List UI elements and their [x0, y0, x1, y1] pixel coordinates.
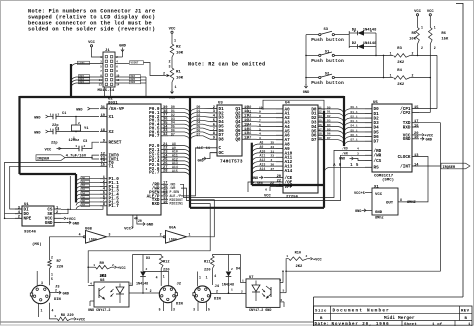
svg-text:U6A: U6A: [169, 227, 177, 231]
inverter U6A LS04: [160, 227, 191, 244]
svg-text:U1: U1: [24, 203, 29, 207]
svg-text:GND: GND: [45, 221, 53, 226]
svg-text:4: 4: [79, 233, 81, 237]
push button S1: [306, 51, 393, 64]
svg-text:RS: RS: [374, 166, 380, 171]
svg-text:3: 3: [41, 281, 43, 285]
svg-text:D0.1: D0.1: [351, 106, 358, 109]
svg-text:1N4148: 1N4148: [363, 42, 377, 46]
svg-text:7: 7: [259, 120, 261, 123]
svg-text:2: 2: [78, 122, 80, 125]
svg-text:5: 5: [159, 308, 161, 312]
svg-text:A6: A6: [248, 131, 252, 135]
svg-text:2: 2: [306, 255, 308, 258]
svg-text:GND: GND: [252, 177, 258, 181]
bus U3 to U4 vertical: [251, 143, 253, 185]
wire R4 row to /CP2: [419, 78, 430, 113]
wire U7 collector to U5 TXD net: [285, 123, 440, 293]
bus main horizontal: [20, 96, 345, 98]
svg-text:23: 23: [271, 155, 275, 158]
svg-text:8Mhz: 8Mhz: [375, 215, 384, 220]
svg-text:93C46: 93C46: [24, 231, 37, 235]
svg-text:Note: R2 can be omitted: Note: R2 can be omitted: [188, 62, 266, 68]
svg-text:1: 1: [199, 276, 201, 280]
svg-text:2: 2: [18, 216, 20, 220]
svg-text:8MHZ: 8MHZ: [407, 201, 416, 205]
svg-text:2: 2: [160, 233, 162, 237]
svg-text:1: 1: [231, 289, 233, 292]
svg-text:/CS: /CS: [374, 159, 382, 164]
svg-text:GND: GND: [147, 224, 155, 228]
capacitor C2 22p: [34, 128, 99, 146]
svg-text:D0: D0: [327, 106, 331, 109]
net label PSEN at U4 /OE: [248, 182, 276, 192]
wire U8 pins: [88, 283, 159, 307]
wires P1.0-P1.7 to LCD bus with labels: [80, 176, 100, 207]
latch U3 74HCT573: [210, 102, 249, 165]
net labels /RD /WR PSEN MIDIOUT MIDIIN1 at U2: [170, 182, 183, 205]
svg-text:1: 1: [93, 264, 95, 267]
power VCC at X1: [354, 192, 372, 196]
svg-text:X2: X2: [109, 130, 115, 135]
wire bus from J1 to LCD data bus: [71, 61, 103, 97]
svg-text:DB6: DB6: [131, 81, 136, 84]
svg-text:1: 1: [286, 255, 288, 258]
svg-text:Document Number: Document Number: [333, 309, 391, 314]
net label IRQSER left: [36, 155, 99, 162]
svg-text:GND: GND: [303, 91, 310, 95]
svg-text:/INT: /INT: [400, 164, 411, 169]
svg-text:19: 19: [101, 114, 105, 118]
svg-text:74HCT573: 74HCT573: [220, 160, 243, 165]
svg-text:A14: A14: [285, 169, 293, 174]
svg-text:GND: GND: [375, 211, 383, 215]
wire R3 row to /CP1: [419, 55, 437, 108]
svg-text:1N4148: 1N4148: [136, 283, 148, 287]
svg-text:26: 26: [271, 164, 275, 167]
svg-text:GND: GND: [76, 109, 83, 113]
wire over U4 to bus: [262, 100, 324, 111]
resistor R4 2K2: [390, 69, 431, 87]
svg-text:1: 1: [242, 280, 244, 283]
wire T0 to U1 DO: [5, 162, 100, 213]
power VCC at U4 VPP: [264, 187, 276, 199]
resistor R8 220 to +VCC: [50, 303, 86, 323]
svg-text:28: 28: [163, 170, 168, 174]
wire U2 GND pin 20: [137, 215, 154, 228]
svg-text:GND: GND: [426, 139, 433, 143]
svg-text:Push button: Push button: [311, 59, 344, 64]
svg-text:R12: R12: [163, 261, 169, 265]
svg-text:GND: GND: [119, 45, 127, 49]
svg-text:A13: A13: [260, 163, 266, 167]
EPROM U4 27256: [276, 102, 325, 200]
resistor R3 2K2: [390, 47, 437, 65]
EEPROM U1 93C46: [15, 203, 61, 235]
wire U2 VCC pin 40: [124, 215, 138, 232]
svg-text:3: 3: [173, 308, 175, 312]
svg-text:6: 6: [213, 123, 215, 127]
svg-text:Q8: Q8: [235, 138, 241, 143]
svg-text:10K: 10K: [176, 52, 184, 56]
svg-text:22: 22: [277, 179, 281, 183]
svg-text:1 of: 1 of: [432, 322, 443, 326]
svg-text:2: 2: [412, 74, 414, 78]
svg-text:D7: D7: [327, 137, 331, 140]
note text about connector J1: [28, 9, 155, 33]
bus P1 vertical with taps: [76, 174, 80, 209]
svg-text:D4: D4: [82, 192, 86, 195]
svg-text:2: 2: [163, 73, 165, 77]
svg-text:U5: U5: [373, 101, 378, 105]
wires J1 bottom pins to bus: [105, 88, 111, 97]
svg-text:D7.1: D7.1: [351, 139, 358, 142]
wire U6B output to U6A input: [107, 236, 164, 238]
svg-text:J2: J2: [177, 283, 182, 287]
diode D2 1N4148: [349, 33, 377, 56]
svg-text:Push button: Push button: [311, 38, 344, 43]
svg-text:2K2: 2K2: [296, 265, 304, 269]
capacitor C3 4.7uF/16V: [45, 140, 100, 159]
svg-text:D6.1: D6.1: [351, 134, 358, 137]
wires A8-A15 from U2 P2 to bus: [168, 142, 190, 177]
svg-text:1: 1: [54, 315, 56, 318]
svg-text:12: 12: [116, 79, 120, 82]
svg-text:A14: A14: [260, 167, 266, 171]
svg-text:D6: D6: [327, 133, 331, 136]
svg-text:D4: D4: [327, 124, 331, 127]
svg-text:3: 3: [193, 308, 195, 312]
svg-text:REV: REV: [461, 310, 470, 314]
svg-text:2: 2: [434, 46, 436, 50]
svg-text:2K2: 2K2: [397, 61, 405, 65]
svg-text:DIN: DIN: [214, 298, 222, 302]
svg-text:2: 2: [354, 29, 356, 33]
svg-text:NPE: NPE: [24, 217, 32, 222]
svg-text:Y1: Y1: [84, 127, 89, 131]
svg-text:Sheet: Sheet: [404, 322, 417, 326]
svg-text:9: 9: [259, 111, 261, 114]
svg-text:D3.1: D3.1: [351, 120, 358, 123]
svg-text:U4: U4: [285, 102, 290, 106]
svg-text:1: 1: [189, 233, 191, 237]
svg-text:11: 11: [99, 79, 103, 82]
svg-text:Midi Merger: Midi Merger: [384, 316, 415, 321]
svg-text:1: 1: [130, 283, 132, 286]
taps address bus to U4 pins A8-A14: [252, 141, 276, 176]
svg-text:4: 4: [357, 147, 359, 150]
svg-text:1: 1: [421, 26, 423, 30]
svg-text:DIN: DIN: [176, 303, 184, 307]
svg-text:LS04: LS04: [89, 238, 97, 242]
svg-text:P0.7: P0.7: [149, 134, 160, 139]
svg-text:220: 220: [204, 269, 210, 273]
wire U1 CS/SK to P1: [61, 176, 103, 214]
svg-text:D2: D2: [327, 115, 331, 118]
svg-text:+VCC: +VCC: [117, 267, 126, 271]
svg-text:/RD: /RD: [342, 146, 348, 150]
svg-text:D2: D2: [352, 42, 357, 46]
svg-text:2: 2: [412, 52, 414, 56]
power VCC above R5: [414, 10, 422, 18]
svg-text:GND: GND: [355, 210, 362, 214]
svg-text:A9: A9: [260, 145, 264, 149]
svg-text:VPP: VPP: [285, 185, 293, 190]
svg-text:8: 8: [259, 115, 261, 118]
net label IRQSER right: [419, 163, 470, 170]
svg-text:GND: GND: [339, 158, 345, 162]
bus to P1 horizontal: [20, 173, 77, 175]
svg-text:1: 1: [206, 276, 208, 280]
svg-text:R11: R11: [204, 261, 210, 265]
svg-text:2: 2: [421, 46, 423, 50]
svg-text:1: 1: [163, 275, 165, 279]
svg-text:CNY17-2 GND: CNY17-2 GND: [249, 309, 271, 313]
svg-text:2: 2: [146, 268, 148, 271]
wire J4 pin1: [198, 272, 202, 287]
inverter U6B LS04: [79, 228, 111, 244]
diode D3 1N4148: [133, 255, 162, 294]
wires J2 bottom pins: [159, 302, 175, 311]
svg-text:+VCC: +VCC: [77, 319, 86, 323]
svg-text:2: 2: [271, 159, 273, 162]
svg-text:5: 5: [208, 308, 210, 312]
connector J3 DIN: [30, 285, 61, 303]
svg-text:31: 31: [101, 106, 106, 110]
optocoupler U7 CNY17-2: [246, 276, 280, 313]
svg-text:GND: GND: [34, 131, 41, 135]
svg-text:A15: A15: [172, 169, 178, 173]
svg-text:R1: R1: [176, 71, 181, 75]
svg-text:RXD: RXD: [403, 125, 411, 130]
svg-text:November 20, 1996: November 20, 1996: [332, 322, 390, 326]
ground at X1: [355, 209, 372, 214]
svg-text:A8: A8: [260, 141, 264, 145]
svg-text:Size: Size: [315, 309, 327, 314]
diode D4 1N4148: [212, 255, 240, 294]
svg-text:1: 1: [50, 114, 52, 117]
svg-text:C3: C3: [83, 140, 87, 144]
svg-text:10: 10: [163, 201, 167, 205]
svg-text:4: 4: [156, 276, 158, 280]
svg-text:8031: 8031: [108, 102, 118, 106]
svg-text:13: 13: [99, 84, 103, 87]
svg-text:GND: GND: [73, 222, 81, 226]
svg-text:2: 2: [216, 290, 218, 294]
svg-text:9: 9: [103, 140, 105, 144]
svg-text:R9: R9: [100, 262, 105, 266]
svg-text:GND: GND: [403, 137, 411, 142]
svg-text:D3: D3: [82, 189, 86, 192]
resistor R7 220: [48, 260, 64, 285]
svg-text:R6: R6: [441, 32, 446, 36]
svg-text:P2.7: P2.7: [149, 171, 160, 176]
svg-text:/EA-VP: /EA-VP: [109, 107, 125, 112]
svg-text:20: 20: [138, 219, 142, 223]
resistor R5 10K: [409, 18, 423, 56]
svg-text:10: 10: [414, 136, 418, 140]
text MS note: [32, 242, 42, 247]
svg-text:GND: GND: [198, 159, 204, 163]
svg-text:D4.1: D4.1: [351, 125, 358, 128]
wire ALE to U3: [181, 147, 211, 196]
svg-text:10: 10: [259, 106, 263, 109]
svg-text:VCC+5: VCC+5: [354, 192, 365, 196]
svg-text:1: 1: [50, 129, 52, 132]
svg-text:A7: A7: [248, 136, 252, 140]
svg-text:6: 6: [265, 189, 267, 192]
svg-text:MIDIIN1: MIDIIN1: [170, 202, 183, 206]
svg-text:R8 220: R8 220: [61, 314, 74, 318]
svg-text:X1: X1: [109, 115, 115, 120]
svg-text:D7: D7: [171, 132, 175, 136]
svg-text:D1: D1: [327, 111, 331, 114]
svg-text:3: 3: [357, 153, 359, 156]
svg-text:/CP2: /CP2: [400, 111, 411, 116]
svg-text:3: 3: [109, 233, 111, 237]
svg-text:A12: A12: [260, 158, 266, 162]
svg-text:VCC: VCC: [169, 27, 177, 31]
wire J4 pin2 to U7: [211, 290, 246, 294]
bus bottom horizontal to U5: [190, 207, 324, 209]
svg-text:1: 1: [370, 29, 372, 33]
svg-text:D5: D5: [82, 196, 86, 199]
connector J4 DIN: [193, 285, 222, 303]
svg-text:25: 25: [271, 142, 275, 145]
svg-text:(SMC): (SMC): [382, 178, 394, 183]
resistor R10 2K2 to +VCC: [286, 252, 322, 272]
svg-text:2K2: 2K2: [397, 83, 405, 87]
svg-text:solded on the solder side (rev: solded on the solder side (reversed!): [28, 27, 155, 33]
svg-text:2: 2: [150, 289, 152, 293]
svg-text:2: 2: [213, 106, 215, 110]
svg-text:MX15-14: MX15-14: [98, 89, 115, 93]
capacitor C1 22p: [34, 112, 99, 128]
svg-text:P.SEN: P.SEN: [253, 182, 263, 186]
svg-text:10K: 10K: [176, 77, 184, 81]
svg-text:D1: D1: [82, 181, 86, 184]
net label VCONT right of J1: [115, 61, 144, 65]
svg-text:6: 6: [259, 124, 261, 127]
svg-text:VCC: VCC: [124, 228, 132, 232]
crystal Y1 12MHz: [69, 116, 90, 143]
svg-text:32: 32: [163, 133, 167, 137]
svg-text:8: 8: [400, 198, 402, 202]
wires data bus taps to U5 D inputs: [344, 106, 365, 146]
svg-text:S3: S3: [324, 28, 329, 32]
svg-text:LCD1: LCD1: [79, 62, 86, 65]
svg-text:VCC: VCC: [45, 148, 53, 152]
wires U3 Q outputs direct to U4 A0-A7 with labels: [248, 105, 277, 140]
wire /RD to U5: [180, 146, 365, 197]
resistor R11 220: [204, 255, 216, 286]
svg-text:P1.7: P1.7: [109, 204, 120, 209]
wires D0-D7 from U2 P0 to U3 with bus taps: [168, 105, 210, 141]
ground below R1: [169, 90, 177, 101]
ground at U1: [61, 221, 80, 226]
svg-text:D7: D7: [311, 138, 317, 143]
svg-text:IRQSER: IRQSER: [37, 158, 50, 162]
push button S2: [306, 73, 393, 86]
svg-text:3: 3: [168, 66, 170, 70]
connector J2 DIN: [159, 283, 183, 307]
power VCC symbol at J1: [88, 41, 103, 57]
svg-text:Push button: Push button: [311, 81, 344, 86]
svg-text:15: 15: [101, 164, 106, 168]
wires U7 pins: [241, 270, 287, 307]
svg-text:DIN: DIN: [54, 298, 62, 302]
svg-text:D5: D5: [327, 128, 331, 131]
wire MIDIIN1 from U2 RXD: [87, 204, 210, 283]
svg-text:4: 4: [214, 274, 216, 278]
connector J1 MX15-14: [98, 49, 120, 93]
svg-text:D8: D8: [219, 138, 225, 143]
wire T1 to U1 DI: [10, 166, 100, 209]
svg-text:21: 21: [271, 150, 275, 153]
svg-text:2: 2: [241, 291, 243, 294]
resistor R2 10K: [168, 36, 183, 70]
svg-text:18: 18: [101, 129, 106, 133]
svg-text:VCC: VCC: [414, 10, 422, 14]
svg-text:5: 5: [259, 128, 261, 131]
svg-text:1: 1: [175, 86, 177, 90]
svg-text:2: 2: [51, 255, 53, 259]
svg-text:A11: A11: [260, 154, 266, 158]
svg-text:12Mhz: 12Mhz: [69, 138, 80, 143]
svg-text:VCC: VCC: [375, 193, 383, 197]
resistor R9 2K2 to +VCC: [88, 262, 126, 279]
svg-text:5: 5: [283, 290, 285, 293]
svg-text:IRQSER: IRQSER: [443, 166, 457, 170]
svg-text:R10: R10: [295, 252, 301, 256]
svg-text:ALE 11: ALE 11: [197, 147, 211, 151]
svg-text:4: 4: [280, 299, 282, 302]
svg-text:T1: T1: [109, 165, 115, 170]
svg-text:2: 2: [55, 289, 57, 293]
bus under U4 horizontal: [252, 184, 324, 186]
power +VCC at U5: [419, 134, 434, 139]
svg-text:R2: R2: [176, 46, 181, 50]
svg-text:10K: 10K: [409, 38, 417, 42]
ground below button wires: [303, 84, 310, 95]
svg-text:R7: R7: [57, 260, 62, 264]
svg-text:4: 4: [90, 283, 92, 286]
wire R7 to U6B input: [50, 237, 84, 260]
svg-text:D4: D4: [236, 268, 240, 272]
svg-text:D0: D0: [82, 177, 86, 180]
svg-text:VCC: VCC: [427, 10, 435, 14]
wire left of buttons to ground: [305, 35, 307, 85]
svg-text:1: 1: [390, 74, 392, 78]
svg-text:D3: D3: [327, 120, 331, 123]
svg-text:15K: 15K: [441, 38, 449, 42]
svg-text:220: 220: [57, 266, 65, 270]
wire J3 pin3 stub: [37, 271, 43, 286]
bus left vertical: [18, 96, 20, 174]
resistor R6 15K: [429, 18, 449, 78]
svg-text:4: 4: [52, 309, 54, 313]
svg-text:1: 1: [41, 309, 43, 313]
ground GND symbol at J1: [115, 45, 127, 58]
svg-text:GND: GND: [34, 116, 41, 120]
svg-text:2: 2: [56, 211, 58, 215]
svg-text:24: 24: [271, 146, 275, 149]
push button S3: [306, 28, 349, 43]
svg-text:D6: D6: [82, 200, 86, 203]
svg-text:VCONT: VCONT: [131, 62, 139, 65]
svg-text:+VCC: +VCC: [313, 258, 322, 262]
svg-text:22: 22: [270, 182, 274, 186]
